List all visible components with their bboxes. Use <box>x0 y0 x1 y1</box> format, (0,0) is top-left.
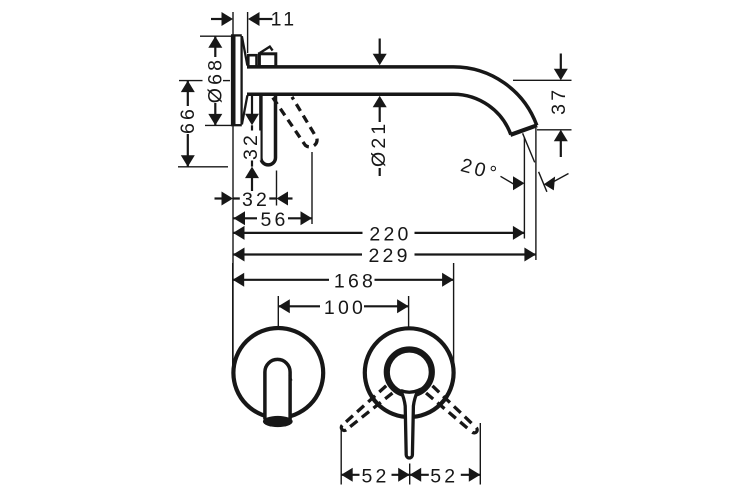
dimension 220 <box>233 138 524 246</box>
20 degree flow line <box>523 133 547 192</box>
svg-text:11: 11 <box>271 9 298 31</box>
dashed handle swung right (front view) <box>339 386 392 434</box>
spout tube outline (side view) <box>247 67 537 135</box>
svg-text:220: 220 <box>369 223 411 245</box>
spout outlet face (aerator) <box>510 125 537 135</box>
spout outlet ellipse (front view) <box>263 416 293 427</box>
spout escutcheon front view circle <box>233 328 323 418</box>
handle lever swung position (side view, dashed) <box>273 97 317 147</box>
dimension 37 <box>513 54 572 158</box>
svg-text:56: 56 <box>260 209 288 231</box>
svg-text:32: 32 <box>240 132 262 160</box>
handle knob ring (front view) <box>387 350 432 395</box>
dimension Ø21 <box>368 39 390 177</box>
escutcheon outline (side view) <box>231 35 247 125</box>
svg-text:229: 229 <box>369 245 411 267</box>
svg-text:32: 32 <box>242 189 270 211</box>
svg-text:100: 100 <box>324 297 366 319</box>
dimension 52 left <box>341 428 410 487</box>
spout front view tube <box>265 359 290 419</box>
handle shaft (front view, solid) <box>401 391 418 458</box>
svg-text:52: 52 <box>430 465 458 487</box>
dimension 229 <box>233 128 536 267</box>
handle escutcheon front view circle <box>365 328 454 417</box>
valve body box 1 on pipe top <box>248 55 256 66</box>
temperature stop tab <box>260 47 273 53</box>
dimension 100 <box>278 296 408 328</box>
escutcheon wall-side thick bar (side view) <box>231 35 236 125</box>
dimension 11 <box>211 9 297 54</box>
wall plane extension line <box>232 12 234 368</box>
svg-text:37: 37 <box>548 87 570 115</box>
dimension 52 right <box>410 423 481 487</box>
dimension 32 horizontal <box>215 171 293 212</box>
dimension 168 <box>233 263 454 369</box>
dimension 32 vertical <box>240 96 262 193</box>
dimension Ø68 <box>200 36 232 125</box>
handle lever (side view, solid) <box>261 96 276 165</box>
svg-text:66: 66 <box>177 106 199 134</box>
20 degree annotation <box>458 154 568 190</box>
valve body box 2 (cartridge) <box>259 54 275 67</box>
svg-text:168: 168 <box>334 270 376 292</box>
dashed handle swung left (front view) <box>426 386 480 435</box>
svg-text:52: 52 <box>361 465 389 487</box>
svg-text:Ø21: Ø21 <box>368 121 390 167</box>
small detail tick on tube <box>289 375 291 380</box>
dimension 66 <box>177 81 230 167</box>
dimension 56 <box>234 152 313 231</box>
